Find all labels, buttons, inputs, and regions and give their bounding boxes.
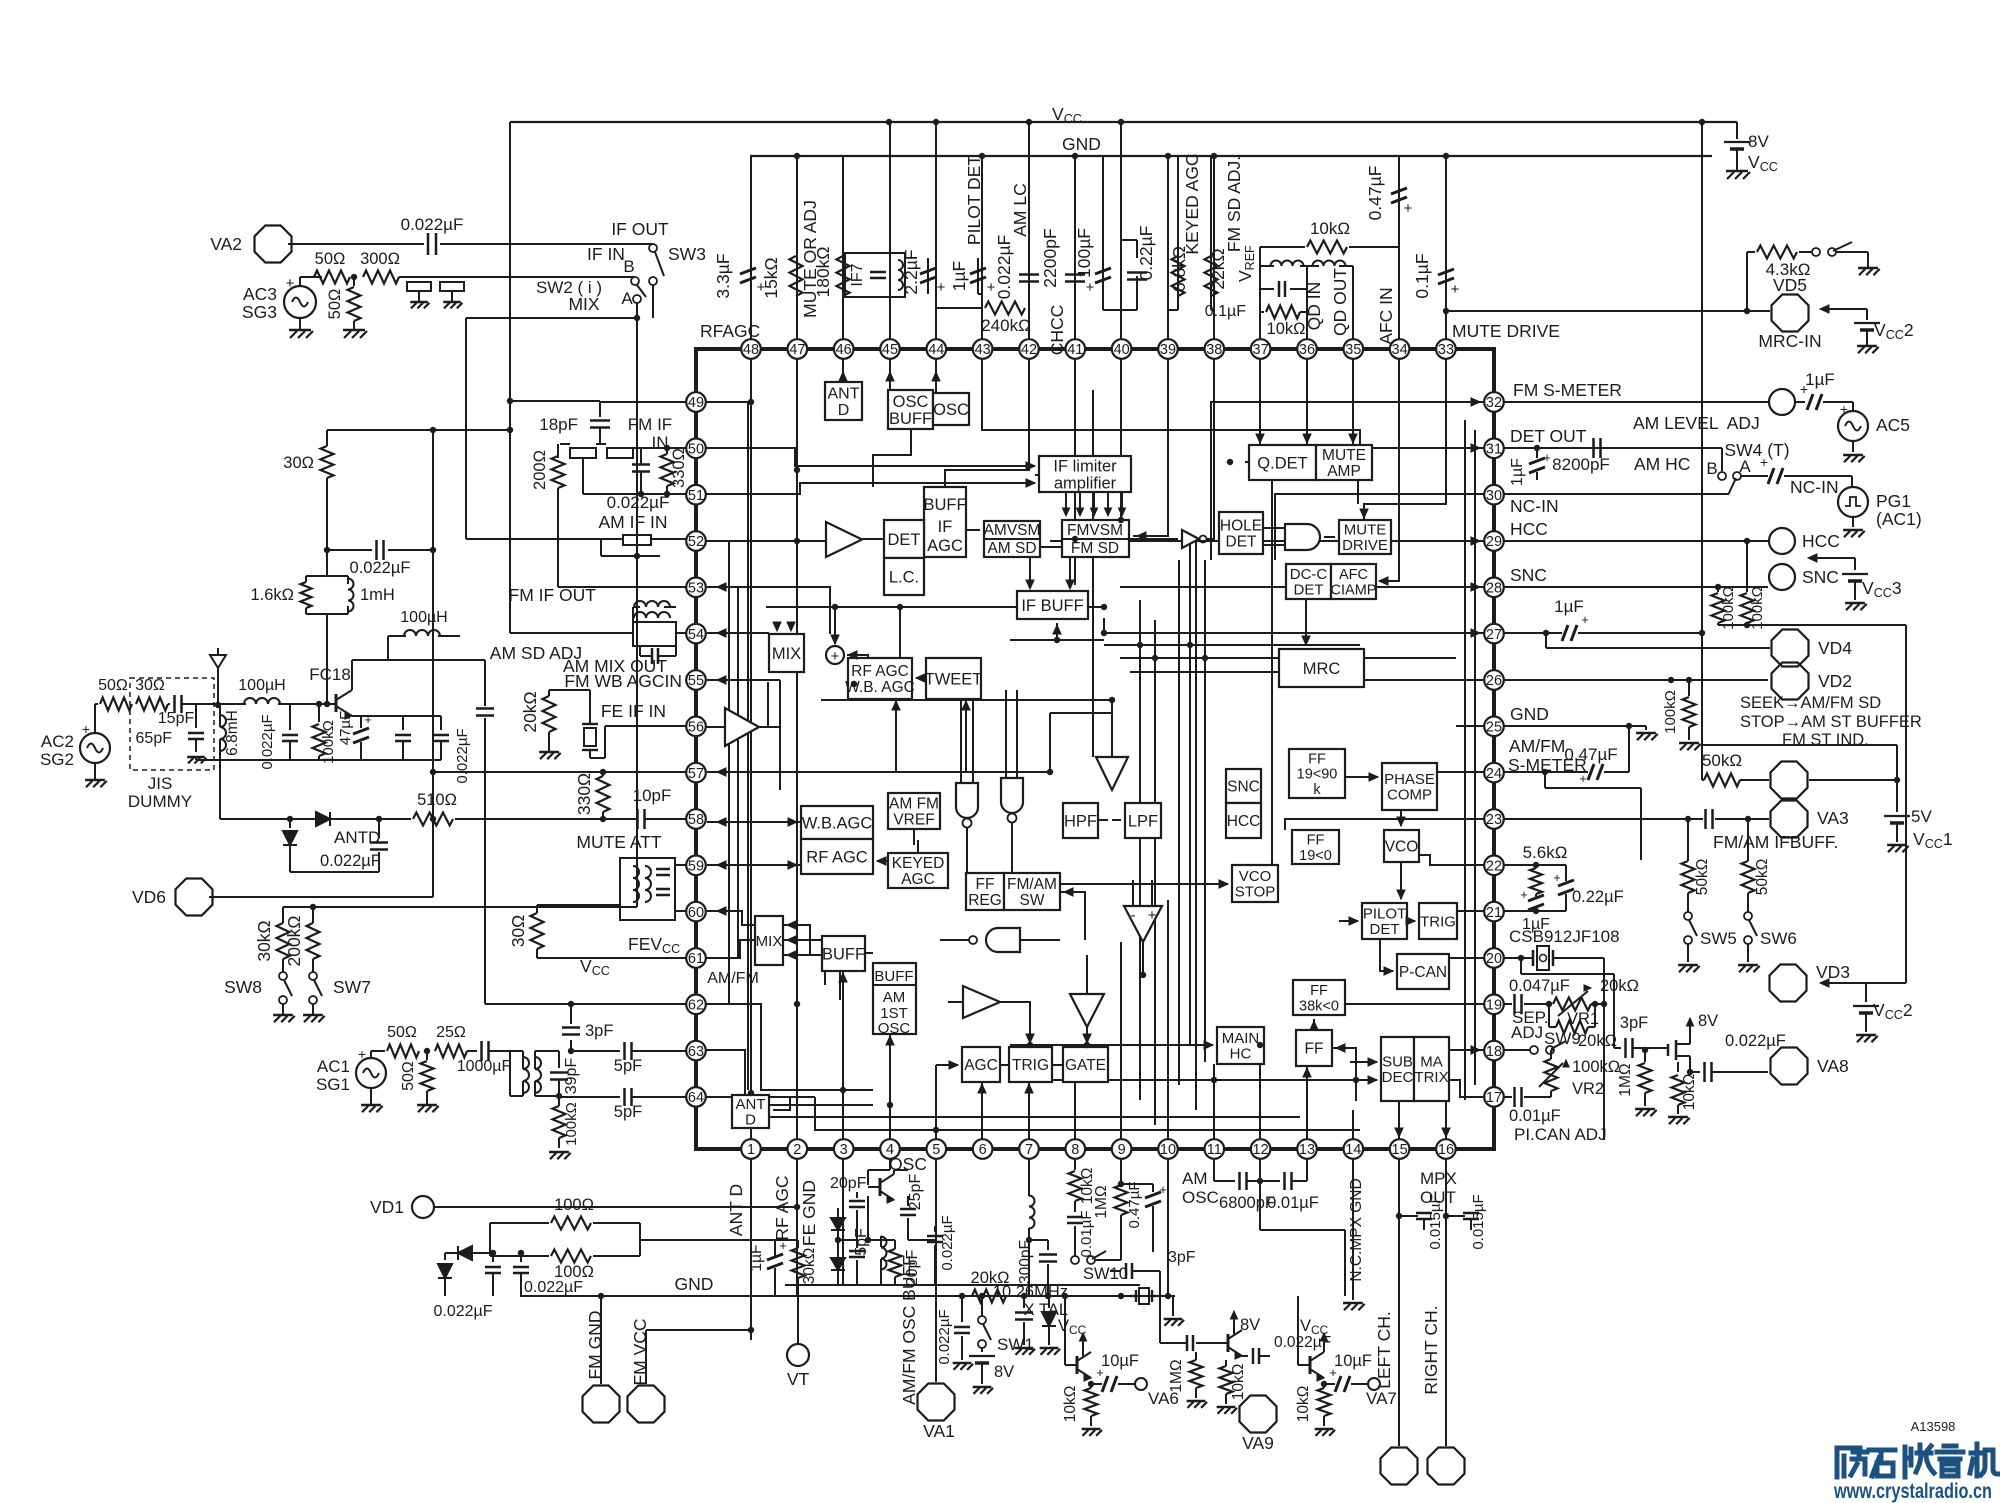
svg-text:0.022µF: 0.022µF [939, 1215, 956, 1270]
wire pin4 down [868, 1159, 890, 1185]
wire pin47 top [796, 156, 798, 339]
label AM OSC [1182, 1169, 1219, 1207]
svg-text:DET OUT: DET OUT [1510, 426, 1587, 446]
wire FF-38k [1313, 1019, 1315, 1030]
wire pin59 ext [675, 864, 686, 866]
svg-text:51: 51 [688, 488, 704, 504]
wire pin5 up [935, 1065, 937, 1139]
svg-text:AFC: AFC [1339, 567, 1368, 583]
label VREF (vert) [1235, 245, 1257, 282]
svg-text:39: 39 [1160, 342, 1176, 358]
arrow 8V (am buf) [1079, 1333, 1086, 1345]
svg-text:25pF: 25pF [907, 1174, 924, 1211]
svg-text:+: + [1553, 870, 1561, 885]
svg-text:100µH: 100µH [238, 677, 285, 694]
capacitor 0.015uF (p16) [1443, 1194, 1487, 1249]
wire FMSD right [1129, 538, 1178, 540]
wire pin33 branch right [1443, 308, 1449, 314]
wire comp out [1142, 942, 1144, 975]
svg-text:0.022µF: 0.022µF [433, 1303, 492, 1320]
svg-text:FM WB AGCIN: FM WB AGCIN [564, 671, 682, 691]
wire bundle v5 [1271, 462, 1273, 884]
capacitor 0.022uF (to 62) [454, 660, 494, 784]
svg-text:24: 24 [1486, 766, 1502, 782]
wire FF right in [1332, 1048, 1356, 1101]
label FEVCC [628, 934, 680, 956]
pin 49 [686, 392, 706, 412]
wire pin2 down [796, 1159, 798, 1296]
transistor Q (VA7) [1298, 1296, 1328, 1381]
wire G3 up1 [1005, 690, 1007, 778]
label PILOT DET (vert) [964, 155, 984, 245]
resistor 50 shunt (AC1) [400, 1048, 439, 1112]
svg-text:+: + [1579, 771, 1587, 786]
svg-text:32: 32 [1486, 395, 1502, 411]
wire RFAGC bottom feed [895, 699, 897, 772]
svg-text:COMP: COMP [1387, 787, 1432, 804]
resistor 4.3k (VD5) [1747, 246, 1812, 312]
svg-text:+: + [1760, 454, 1768, 470]
wire pin40 top [1120, 122, 1122, 339]
wire DCC to MRC [1305, 599, 1307, 645]
arrow AGC bottom [978, 1084, 986, 1093]
svg-text:38k<0: 38k<0 [1299, 998, 1339, 1014]
wire G2 out [966, 828, 968, 873]
resistor 1M (VA8) [1617, 1047, 1657, 1116]
svg-text:FM/AM: FM/AM [1007, 876, 1057, 893]
switch SW6 [1738, 912, 1797, 972]
resistor 15k (pin47) [761, 256, 803, 299]
wire SW2-B row [464, 276, 634, 278]
capacitor c2 (fe) [433, 716, 449, 760]
capacitor 2.2uF [901, 249, 946, 296]
svg-text:FM IF: FM IF [628, 415, 672, 434]
wire pin56 to amp2 [706, 726, 725, 728]
svg-text:1MΩ: 1MΩ [1168, 1359, 1185, 1392]
wire pin58 to W.B.AGC [707, 821, 801, 823]
wire pin35 to MUTE AMP [1352, 359, 1354, 445]
svg-text:FF: FF [1307, 833, 1325, 849]
svg-text:FE IF IN: FE IF IN [601, 701, 666, 721]
label GND (bottom) [675, 1274, 714, 1294]
arrow MIX2 a [787, 921, 796, 929]
svg-text:52: 52 [688, 534, 704, 550]
wire pin42 down [945, 359, 1029, 487]
svg-text:SW5: SW5 [1700, 929, 1737, 948]
svg-text:25Ω: 25Ω [436, 1024, 466, 1041]
svg-text:TRIX: TRIX [1414, 1069, 1448, 1086]
capacitor 0.047uF (pin19) [1509, 977, 1570, 1014]
capacitor 6800pF [1214, 1172, 1275, 1212]
svg-text:MAIN: MAIN [1222, 1030, 1260, 1047]
pin 18 [1484, 1041, 1504, 1061]
pin 42 [1019, 339, 1039, 359]
ceramic filter CF5 (AM IF) [466, 535, 686, 559]
terminal VD2 octagon [1772, 663, 1853, 700]
svg-text:3: 3 [840, 1142, 848, 1158]
svg-text:AM: AM [1182, 1169, 1208, 1188]
capacitor 10uF (VA7) [1321, 1352, 1397, 1408]
svg-text:HC: HC [1230, 1046, 1252, 1063]
resistor 50k (SW5) [1682, 819, 1712, 912]
arrow MIX top a [773, 622, 781, 631]
svg-text:2.2µF: 2.2µF [901, 249, 921, 294]
svg-text:30kΩ: 30kΩ [801, 1248, 818, 1285]
wire texture L3 [737, 587, 739, 958]
block AMVSM / AM SD [984, 521, 1040, 557]
svg-text:VD5: VD5 [1773, 275, 1807, 295]
wire pin28 SNC [1120, 586, 1484, 588]
arrow AFC CIAMP [1379, 577, 1388, 585]
svg-text:+: + [286, 275, 295, 292]
svg-text:6: 6 [979, 1142, 987, 1158]
terminal VD4 octagon [1772, 630, 1853, 667]
inductor 100uH (fm2) [388, 609, 460, 660]
wire bundle v1 [1139, 600, 1141, 1100]
svg-text:HOLE: HOLE [1220, 518, 1262, 535]
block FF 38k<0 [1293, 980, 1345, 1015]
svg-text:MIX: MIX [772, 645, 801, 663]
transformer T3 (AM ant) [510, 1051, 541, 1096]
svg-text:AMP: AMP [1327, 463, 1361, 480]
svg-text:BUFF: BUFF [822, 945, 865, 963]
label DET OUT [1510, 426, 1587, 446]
wire A5 in [948, 1001, 963, 1003]
svg-text:MA: MA [1420, 1054, 1443, 1071]
capacitor 1uF (pin31) [1509, 445, 1551, 486]
svg-text:VA1: VA1 [923, 1421, 955, 1441]
svg-text:SUB: SUB [1382, 1054, 1413, 1071]
svg-text:D: D [838, 402, 850, 419]
block TRIG (pilot) [1419, 903, 1457, 939]
svg-text:AGC: AGC [964, 1057, 998, 1074]
wire bundle v7 [1050, 712, 1112, 714]
wire pin41 top [1074, 156, 1076, 339]
svg-text:B: B [623, 257, 634, 276]
svg-text:FM VCC: FM VCC [630, 1318, 650, 1385]
svg-text:38: 38 [1206, 342, 1222, 358]
wire pin43 down-right [982, 359, 1360, 445]
wire pin3 up [842, 984, 844, 1139]
block MIX (AM mix) [769, 634, 804, 672]
svg-text:D: D [745, 1112, 756, 1129]
battery 8V (SW1) [969, 1356, 1014, 1394]
arrow sum left [848, 651, 857, 659]
wire pin4 BUFF AM OSC [889, 1034, 891, 1139]
wire pin54 tank [510, 622, 676, 646]
wire pin17 MATRIX [1449, 1080, 1484, 1097]
svg-text:23: 23 [1486, 812, 1502, 828]
pin 41 [1066, 339, 1086, 359]
wire FM GND col [598, 1293, 604, 1384]
transistor FC18 [300, 665, 352, 719]
NAND gate G2 (vertical) [956, 783, 978, 828]
svg-text:VD4: VD4 [1818, 638, 1852, 658]
wire BUFF2 up [842, 971, 844, 1000]
svg-text:20kΩ: 20kΩ [1600, 977, 1639, 995]
svg-text:DRIVE: DRIVE [1342, 537, 1388, 554]
NAND gate G4 (horizontal) [969, 928, 1020, 952]
wire pin39 top [1167, 156, 1169, 339]
AC source AC1/SG1 [316, 1046, 386, 1112]
switch SW10 [1071, 1251, 1128, 1283]
svg-text:DET: DET [1226, 534, 1258, 551]
diode D2 (VD1) [438, 1253, 452, 1296]
GND bus (top) [750, 155, 1712, 157]
arrow PILOT top [1397, 890, 1405, 899]
capacitor (pin7 gnd) [1015, 1293, 1035, 1355]
svg-text:20: 20 [1486, 951, 1502, 967]
AC source AC5 [1838, 401, 1910, 462]
svg-text:39pF: 39pF [563, 1058, 580, 1095]
wire TWEET-RFAGC [916, 677, 926, 679]
svg-text:330Ω: 330Ω [574, 773, 594, 815]
block FM/AM SW [1004, 873, 1060, 910]
svg-text:RIGHT CH.: RIGHT CH. [1421, 1305, 1441, 1394]
pin 38 [1205, 339, 1225, 359]
block BUFF / IF AGC [924, 487, 966, 557]
block FMVSM / FM SD [1062, 520, 1129, 557]
pin 21 [1484, 902, 1504, 922]
capacitor 0.022uF (ANTD) [320, 816, 388, 872]
svg-text:43: 43 [975, 342, 991, 358]
arrow KEYED-RFAGC [877, 857, 886, 865]
junction dots on top buses [794, 119, 1705, 159]
wire pin49 left [600, 401, 686, 403]
wire 100k bottoms [1718, 622, 1906, 983]
wire FM SD down [1069, 557, 1071, 587]
label FM GND (vert) [585, 1310, 605, 1379]
amplifier A2 (pin56) [725, 708, 759, 746]
svg-text:DET: DET [888, 531, 921, 549]
label SEEK AM/FM SD [1740, 694, 1881, 712]
label AM IF IN [598, 512, 667, 532]
arrow MIX2 b [787, 936, 796, 944]
resistor 330 (pin58) [574, 769, 610, 822]
label QD OUT (vert) [1330, 268, 1350, 336]
pin 36 [1297, 339, 1317, 359]
svg-text:5V: 5V [1911, 807, 1932, 826]
pin 51 [686, 485, 706, 505]
svg-text:VT: VT [787, 1369, 810, 1389]
wire pin18 MATRIX [1449, 1049, 1484, 1051]
svg-text:FF: FF [1308, 752, 1326, 768]
svg-text:FC18: FC18 [309, 665, 351, 684]
ceramic filter CF6 (FE IF) [549, 690, 605, 758]
pin 9 [1112, 1139, 1132, 1159]
svg-text:2: 2 [793, 1142, 801, 1158]
switch SW9 [1504, 1029, 1581, 1054]
capacitor 0.22uF [1121, 226, 1156, 310]
block MAIN HC [1217, 1027, 1264, 1064]
svg-text:AM HC: AM HC [1634, 454, 1690, 474]
svg-text:+: + [1451, 281, 1460, 298]
transformer T2 (MUTE ATT) [620, 858, 675, 920]
potentiometer VR2 100k [1539, 1050, 1620, 1098]
capacitor 5pF (osc) [849, 1228, 870, 1285]
svg-text:W.B.AGC: W.B.AGC [802, 814, 873, 832]
wire texture R2 [1474, 430, 1476, 1085]
svg-text:AGC: AGC [927, 537, 963, 555]
svg-text:50Ω: 50Ω [387, 1024, 417, 1041]
pin 45 [880, 339, 900, 359]
wire VA2 row [288, 243, 653, 245]
wire MIX2 in2 [783, 940, 825, 985]
wire texture L1 [747, 402, 749, 1090]
svg-text:SW1: SW1 [997, 1335, 1034, 1354]
arrow into pin27 [1471, 629, 1480, 637]
svg-text:DC-C: DC-C [1290, 566, 1328, 583]
svg-text:VA3: VA3 [1817, 808, 1849, 828]
wire antenna node [196, 702, 240, 708]
arrow MAINHC [1204, 1041, 1213, 1049]
svg-text:50Ω: 50Ω [400, 1061, 417, 1091]
wire mid h700 [821, 699, 1112, 701]
wire tri3 in [1111, 700, 1113, 757]
arrow FF right [1336, 1044, 1345, 1052]
arrow into pin46 [839, 372, 847, 381]
ceramic filter CF4 (FM IF) [607, 448, 633, 458]
label FM IF IN [628, 415, 672, 452]
wire pin13 FF [1306, 1066, 1308, 1139]
svg-text:27: 27 [1486, 627, 1502, 643]
capacitor 0.022uF (fm fe) [259, 704, 298, 770]
svg-text:AM: AM [883, 989, 906, 1006]
svg-text:STOP→AM ST BUFFER: STOP→AM ST BUFFER [1740, 713, 1922, 731]
svg-text:22: 22 [1486, 859, 1502, 875]
block IF BUFF [1017, 591, 1088, 619]
resistor 100k (fm fe) [313, 701, 338, 764]
wire amp2 up [767, 682, 769, 727]
svg-text:8V: 8V [994, 1363, 1014, 1381]
arrow BUFF2 up [839, 973, 847, 982]
capacitor 5pF (pin64) [559, 1088, 686, 1121]
wire under IF BUFF [766, 606, 1104, 608]
switch SW4 [1706, 440, 1789, 494]
svg-text:L.C.: L.C. [889, 568, 919, 586]
svg-text:SW3: SW3 [668, 244, 706, 264]
octagon FM VCC [628, 1386, 665, 1423]
svg-text:N.C.MPX GND: N.C.MPX GND [1348, 1178, 1365, 1281]
svg-text:1µF: 1µF [1805, 370, 1835, 389]
capacitor 3pF (pin9 col) [1110, 1249, 1196, 1279]
svg-text:A13598: A13598 [1911, 1419, 1956, 1434]
label 8V arrow (VA8) [1686, 1012, 1718, 1033]
svg-text:STOP: STOP [1235, 884, 1276, 901]
wire sum up [834, 607, 836, 644]
svg-text:AM LEVEL ADJ: AM LEVEL ADJ [1633, 413, 1760, 433]
svg-text:31: 31 [1486, 442, 1502, 458]
JIS DUMMY dashed box [130, 678, 214, 770]
pin 56 [686, 717, 706, 737]
svg-text:0.022µF: 0.022µF [320, 852, 381, 870]
wire AGC-TRIG [1000, 1064, 1009, 1066]
svg-text:10kΩ: 10kΩ [1230, 1364, 1247, 1401]
terminal VA8 octagon [1771, 1048, 1849, 1085]
wire MIX2 in3 [783, 955, 840, 1000]
wire pin13 down [1306, 1159, 1308, 1181]
svg-text:AC3: AC3 [243, 284, 277, 304]
arrow into pin28 [1471, 583, 1480, 591]
pin 5 [927, 1139, 947, 1159]
wire pin16 down [1445, 1159, 1447, 1446]
svg-text:3pF: 3pF [1168, 1249, 1196, 1266]
wire pin57 ext [433, 771, 686, 773]
label FM/AM IFBUFF. [1713, 832, 1838, 852]
summing junction S1 [826, 646, 844, 665]
svg-text:VREF: VREF [893, 812, 934, 829]
capacitor 0.01uF (pin8) [1067, 1208, 1095, 1258]
wire pin31 ext [1504, 447, 1722, 449]
resistor 30k (osc) [792, 1240, 819, 1296]
pin 1 [741, 1139, 761, 1159]
wire G4 out [940, 939, 969, 941]
svg-text:FM SD: FM SD [1071, 540, 1119, 557]
label AM/FM S-METER (pin24) [1508, 736, 1587, 775]
label AM LEVEL ADJ [1633, 413, 1760, 433]
block TRIG (am) [1009, 1047, 1052, 1082]
capacitor 0.022uF (chain) [324, 540, 436, 577]
block PILOT DET [1362, 903, 1407, 939]
resistor 100k (VD2) [1662, 677, 1701, 750]
svg-text:1µF: 1µF [748, 1244, 765, 1271]
capacitor 2200pF (pin41) [1040, 228, 1085, 287]
svg-text:MIX: MIX [756, 933, 783, 950]
label MUTE DRIVE (top) [1452, 321, 1560, 341]
wire pin41 down [1074, 359, 1076, 585]
label VCC (VA7) [1300, 1317, 1329, 1337]
resistor 180k (pin46) [813, 246, 850, 297]
arrow pin5 AGC [949, 1061, 958, 1069]
wire pin44 top [935, 122, 937, 339]
label PI.CAN ADJ [1514, 1125, 1607, 1144]
junction dots (interior) [748, 399, 1359, 1133]
svg-text:CSB912JF108: CSB912JF108 [1509, 927, 1620, 946]
svg-text:NC-IN: NC-IN [1510, 496, 1559, 516]
svg-text:SNC: SNC [1227, 779, 1260, 796]
Vcc bus (top) [510, 121, 1737, 123]
label CHCC [1047, 305, 1067, 356]
wire pin45 from OSC BUFF [889, 359, 891, 390]
svg-text:www.crystalradio.cn: www.crystalradio.cn [1833, 1480, 1992, 1503]
label FE IF IN [601, 701, 666, 721]
diode D3 (osc) [831, 1208, 845, 1240]
svg-text:ANT: ANT [736, 1096, 766, 1113]
wire pin24 branch [1545, 772, 1641, 860]
label N.C.MPX GND (vert) [1348, 1178, 1365, 1281]
svg-text:SG1: SG1 [316, 1075, 350, 1094]
svg-text:18pF: 18pF [539, 415, 578, 434]
terminal VD1 [370, 1196, 800, 1218]
label NC-IN (pin30) [1510, 496, 1559, 516]
transistor Q (VA9) [1216, 1311, 1260, 1359]
wire GND rail (bottom) [520, 1295, 1175, 1297]
block ANT D (bottom) [732, 1095, 769, 1129]
capacitor 0.022uF (VD1a) [485, 1250, 501, 1296]
block BUFF (mid) [822, 936, 865, 971]
svg-text:GATE: GATE [1065, 1057, 1106, 1074]
pin 10 [1158, 1139, 1178, 1159]
svg-text:DET: DET [1370, 921, 1400, 938]
wire pin26 MRC [1364, 679, 1484, 681]
label MPX OUT [1420, 1169, 1457, 1207]
wire bundle h3 [1130, 671, 1360, 673]
arrow RFAGC right [916, 674, 925, 682]
resistor 100k (HCC) [1712, 586, 1738, 630]
wire FF1990 PHASE [1345, 776, 1378, 778]
arrow FF38k up [1310, 1021, 1318, 1030]
pin 40 [1112, 339, 1132, 359]
